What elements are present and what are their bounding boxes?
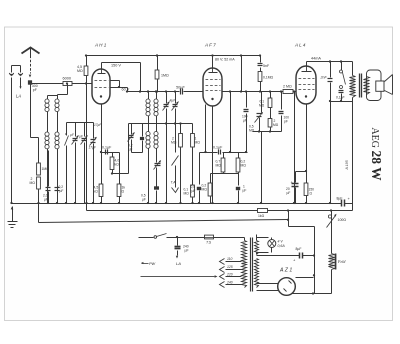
svg-text:0,1µF: 0,1µF [102, 146, 112, 150]
svg-text:kΩ: kΩ [115, 163, 120, 167]
trimmer padding cap [155, 163, 161, 165]
wire grid line AH1 [31, 83, 93, 85]
capacitor 20uF cathode [296, 171, 307, 173]
svg-text:110: 110 [227, 257, 233, 261]
svg-text:0,1µF: 0,1µF [336, 96, 345, 100]
volume pot 0.5 Mohm [261, 92, 263, 113]
resistor 2 Mohm AL4 grid [283, 90, 293, 94]
svg-text:17µF: 17µF [89, 146, 97, 150]
pilot lamp 4V 0.6A [257, 237, 269, 239]
wire detector rail [128, 91, 180, 93]
capacitor 0.1uF coupling [218, 150, 220, 155]
svg-text:µF: µF [129, 148, 133, 152]
svg-text:2 MΩ: 2 MΩ [283, 85, 292, 89]
wire to oscillator [113, 173, 129, 175]
resistor 40 kohm [112, 153, 114, 158]
svg-text:5nF: 5nF [263, 64, 270, 68]
wire AL4 cathode [306, 105, 308, 172]
svg-text:MΩ: MΩ [273, 123, 279, 127]
svg-text:4µF: 4µF [170, 99, 177, 103]
capacitor 1uF [238, 174, 240, 186]
svg-text:6000: 6000 [63, 77, 71, 81]
resistor 0.1 Mohm phono [191, 185, 195, 197]
capacitor 5nF [260, 56, 262, 63]
coil oscillator secondary [156, 92, 158, 163]
svg-text:MΩ: MΩ [241, 164, 247, 168]
svg-text:µF: µF [243, 189, 247, 193]
wire heater leads AZ1 [257, 283, 279, 285]
svg-text:0,1µF: 0,1µF [213, 146, 223, 150]
svg-text:LA: LA [16, 94, 21, 99]
wire AL4 anode [306, 62, 308, 67]
svg-text:µF: µF [142, 198, 146, 202]
resistor 0.2 Mohm [238, 153, 240, 159]
svg-text:MΩ: MΩ [195, 141, 201, 145]
resistor 1 Mohm osc [192, 124, 194, 134]
svg-text:8µF: 8µF [296, 247, 302, 251]
resistor 0.1 Mohm screen [258, 72, 262, 82]
capacitor 100pF [246, 92, 248, 108]
svg-text:80 V; 52 mA: 80 V; 52 mA [215, 58, 235, 62]
resistor 0.7 Mohm [223, 153, 225, 159]
wire heater bus [86, 204, 88, 211]
svg-text:µF: µF [185, 249, 189, 253]
transformer secondary HV [255, 259, 259, 288]
resistor 1 Mohm screen [157, 56, 159, 71]
tube AZ1 [278, 278, 296, 296]
svg-text:125: 125 [227, 265, 233, 269]
svg-text:µF: µF [44, 198, 48, 202]
svg-text:µF: µF [287, 191, 291, 195]
tuning gang cap 1 [166, 92, 168, 104]
svg-text:MΩ: MΩ [184, 192, 190, 196]
capacitor 0.1uF [102, 152, 120, 154]
svg-text:MΩ: MΩ [202, 188, 208, 192]
resistor 2 Mohm osc [180, 124, 182, 134]
wire heater return [38, 204, 40, 223]
svg-text:240: 240 [226, 281, 233, 285]
svg-text:1kΩ: 1kΩ [258, 214, 265, 218]
wire B+ riser [352, 204, 354, 211]
wire rectifier anode riser [314, 227, 316, 294]
svg-text:PW: PW [149, 262, 156, 266]
capacitor 0.2uF [48, 151, 50, 187]
wire antenna down-lead to band switch [30, 85, 32, 138]
wire mains lead with switch [139, 237, 154, 239]
wire main ground bus [12, 203, 342, 205]
capacitor 0.1uF jack [339, 90, 344, 92]
svg-text:T.A.: T.A. [171, 181, 177, 185]
svg-text:µF: µF [60, 189, 64, 193]
wire AL4 grid return [294, 92, 296, 204]
capacitor 0.5uF [199, 153, 201, 185]
ground symbol [11, 207, 14, 210]
svg-text:LA: LA [176, 261, 181, 266]
capacitor 100pF det [281, 92, 283, 110]
label PW [142, 263, 149, 265]
tube AL4 [296, 66, 316, 104]
capacitor 50uF coupling [180, 89, 182, 95]
capacitor 240pF mains [177, 238, 179, 246]
wire AH1 screen feed down to bus [86, 84, 88, 204]
capacitor 8uF smoothing [257, 255, 300, 257]
svg-text:60 V: 60 V [122, 88, 130, 92]
svg-text:pF: pF [284, 120, 288, 124]
svg-text:0,1MΩ: 0,1MΩ [263, 76, 274, 80]
svg-text:Feld: Feld [337, 259, 346, 264]
svg-text:220: 220 [226, 273, 233, 277]
svg-text:1MΩ: 1MΩ [161, 74, 169, 78]
wire jack return [331, 101, 353, 103]
wire AF7 cathode [212, 107, 214, 204]
capacitor 8uF reservoir [341, 200, 343, 207]
capacitor 0.5uF [154, 186, 159, 189]
wire coil tops [48, 95, 58, 97]
phono socket [172, 188, 179, 193]
resistor 0.1 Mohm AVC [270, 92, 272, 99]
coil antenna secondary [57, 95, 59, 204]
wire AH1 side leads [111, 80, 120, 82]
wire top supply rail [86, 55, 261, 57]
junction dots [85, 54, 87, 56]
wire osc link [140, 63, 142, 92]
transformer output primary [352, 62, 354, 76]
svg-text:8µF: 8µF [337, 197, 343, 201]
svg-text:2nF: 2nF [320, 76, 328, 80]
wire AZ1 bottom [292, 293, 332, 295]
capacitor 0.2uF second [57, 151, 59, 187]
wire detector return [261, 132, 263, 204]
coil antenna primary [47, 96, 49, 204]
wire AF7 grid lead [205, 105, 207, 153]
voltage selector taps [220, 259, 225, 265]
svg-text:150 V: 150 V [111, 64, 121, 68]
speaker jack switch [341, 62, 343, 71]
svg-text:MΩ: MΩ [171, 141, 177, 145]
svg-text:50µF: 50µF [176, 86, 185, 90]
svg-text:17µF: 17µF [94, 123, 102, 127]
svg-text:µF: µF [192, 189, 196, 193]
switch T.A. phono [172, 156, 179, 166]
transformer core [359, 74, 361, 98]
hum potentiometer 100 ohm [331, 211, 333, 254]
resistor 6000 [63, 82, 72, 86]
tube AH1 [92, 69, 110, 104]
wire trimmer header [67, 122, 94, 124]
svg-text:44mA: 44mA [311, 57, 321, 61]
svg-text:A H 1: A H 1 [94, 43, 107, 48]
tube AF7 [203, 68, 222, 106]
coil oscillator primary [148, 92, 150, 188]
svg-text:A F 7: A F 7 [204, 43, 216, 48]
svg-text:MΩ: MΩ [216, 164, 222, 168]
svg-text:A L 4: A L 4 [294, 43, 306, 48]
transformer mains primary [244, 238, 246, 241]
wire earth-side of antenna input [11, 78, 13, 204]
svg-text:4 V: 4 V [278, 240, 284, 244]
svg-text:MΩ: MΩ [30, 181, 36, 185]
svg-text:pF: pF [33, 88, 37, 92]
resistor 1 Mohm AVC [37, 163, 41, 175]
wire AH1 anode link [101, 63, 103, 70]
wire oscillator bus [129, 123, 193, 125]
resistor 1 kohm heater [258, 209, 268, 213]
wire B+ drop [241, 56, 243, 92]
svg-text:A Z 1: A Z 1 [279, 268, 292, 274]
field coil Feld [329, 254, 335, 270]
fuse TS [205, 235, 214, 239]
resistor 4.5 Mohm grid leak [86, 56, 88, 67]
capacitor antenna 300pF [28, 80, 32, 84]
wire coupling line [200, 152, 218, 154]
svg-text:100Ω: 100Ω [338, 218, 347, 222]
wire AH1 cathode [101, 105, 103, 185]
svg-text:T.S: T.S [206, 241, 212, 245]
resistor 2 Mohm AVC [37, 177, 41, 189]
capacitor 0.2uF osc [142, 124, 144, 137]
trimmer capacitor row [73, 138, 78, 140]
wire detector join [253, 131, 282, 133]
transformer core lines [250, 238, 252, 292]
resistor 1 kohm [119, 153, 121, 185]
band switch contact [66, 134, 68, 136]
antenna [22, 48, 40, 54]
wire HV feed [288, 211, 290, 227]
svg-text:MΩ: MΩ [259, 104, 265, 108]
svg-text:µF: µF [243, 119, 247, 123]
wire screen divider [230, 92, 232, 153]
wire mains lead 2 voltage selector [141, 276, 215, 278]
wire join [211, 173, 239, 175]
tuning gang cap 2 [175, 92, 177, 104]
wire AF7 anode [212, 56, 214, 69]
aerial sockets LA [12, 65, 21, 67]
trimmer osc [131, 124, 133, 135]
svg-text:0,6A: 0,6A [278, 244, 286, 248]
speaker [367, 70, 382, 101]
transformer secondary 4V [256, 235, 258, 241]
svg-text:kΩ: kΩ [94, 190, 99, 194]
resistor 0.2 Mohm lower [210, 174, 212, 184]
resistor 2 Mohm AVC [270, 108, 272, 119]
wire AZ1 cathode output [296, 277, 314, 279]
svg-text:MΩ: MΩ [77, 69, 83, 73]
svg-text:A 195: A 195 [345, 160, 349, 170]
resistor 4.5 kohm cathode [99, 184, 103, 197]
resistor 150 ohm cathode [306, 172, 308, 184]
capacitor 2nF tone [330, 62, 332, 78]
